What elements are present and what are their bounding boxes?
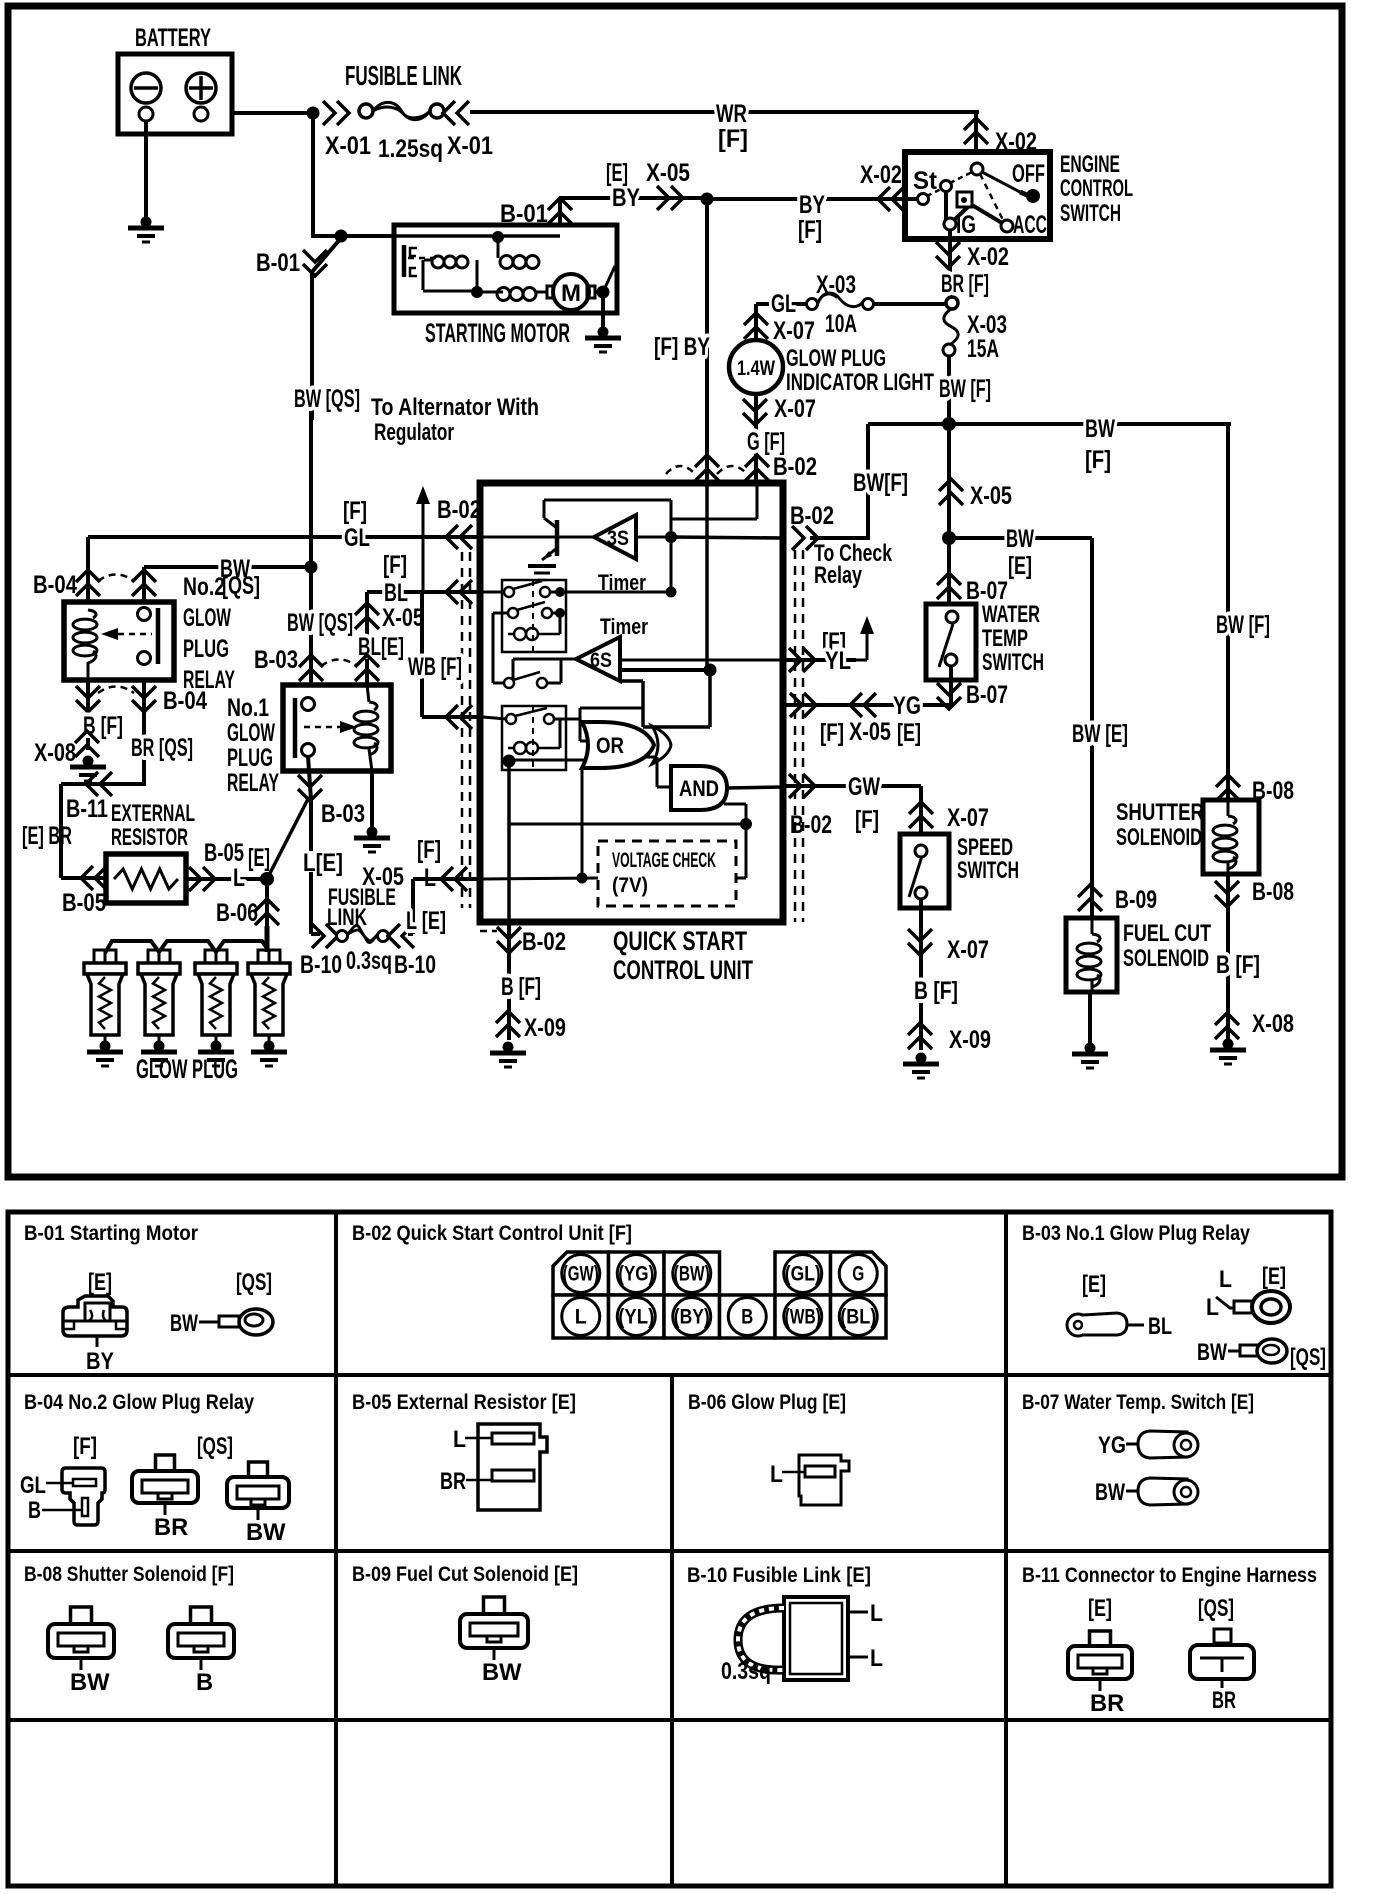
svg-text:[E]: [E] — [1088, 1596, 1112, 1622]
wire AND branch to voltage check — [724, 803, 746, 806]
connector B-03 chevrons above No.1 relay — [299, 655, 323, 681]
switch feed contact (BY) — [918, 194, 929, 205]
svg-text:GLOW: GLOW — [183, 604, 231, 632]
svg-text:BY: BY — [799, 191, 825, 219]
svg-text:TEMP: TEMP — [982, 626, 1028, 652]
connector X-02 chevron below switch — [936, 242, 960, 268]
connector B-08 plug BW — [71, 1607, 92, 1624]
svg-text:[E]: [E] — [1082, 1272, 1106, 1298]
svg-text:X-01: X-01 — [325, 132, 371, 160]
connector B-02 chevrons at top of control unit — [695, 455, 719, 481]
wire battery junction down to starting-motor feed — [311, 113, 315, 238]
svg-text:[E] BR: [E] BR — [22, 822, 72, 850]
svg-text:OFF: OFF — [1012, 160, 1045, 188]
relay contacts row2 — [508, 608, 518, 618]
svg-text:BW [QS]: BW [QS] — [287, 609, 353, 637]
svg-text:X-03: X-03 — [816, 271, 856, 299]
node BY termination — [704, 664, 717, 677]
wire L into control unit — [414, 877, 483, 881]
connector B-02 chevron below unit — [497, 927, 521, 953]
svg-text:ENGINE: ENGINE — [1060, 152, 1120, 178]
connector X-02 chevron on BY wire — [878, 187, 904, 211]
water temp switch box — [926, 604, 976, 680]
wire B-02 exit at bottom of unit — [507, 922, 511, 1040]
svg-text:X-05: X-05 — [382, 604, 424, 632]
svg-text:[E]: [E] — [88, 1270, 112, 1296]
svg-text:[E]: [E] — [897, 719, 921, 747]
ground (battery) — [141, 217, 152, 228]
connector B-08 chevron below — [1215, 881, 1239, 907]
wire row3 to 6S apex — [513, 658, 576, 661]
svg-text:B [F]: B [F] — [83, 712, 123, 740]
svg-text:[F]: [F] — [417, 836, 441, 864]
connector X-07 chevron above speed switch — [909, 802, 933, 828]
starting motor internal top wire — [396, 234, 560, 238]
svg-text:BW [E]: BW [E] — [1072, 720, 1128, 748]
connector X-09 chevron (unit ground) — [496, 1011, 520, 1037]
svg-text:GLOW: GLOW — [227, 719, 275, 747]
switch blade St-hub — [927, 188, 943, 196]
connector B-10 fusible link body — [784, 1597, 848, 1680]
connector B-05 chevron left — [81, 866, 107, 890]
svg-text:[QS]: [QS] — [1198, 1596, 1234, 1622]
ground (control unit) — [503, 1042, 514, 1053]
svg-text:CONTROL UNIT: CONTROL UNIT — [613, 955, 753, 985]
svg-text:10A: 10A — [825, 310, 857, 338]
connector B-07 chevron below switch — [937, 683, 961, 709]
switch OFF contact — [982, 172, 1020, 192]
svg-text:(BW): (BW) — [674, 1263, 710, 1286]
starting motor armature coil — [477, 291, 503, 294]
wire BL into control unit — [367, 590, 483, 594]
No.2 relay coil — [88, 610, 96, 618]
wire to engine control switch (top run WR) — [470, 110, 979, 114]
svg-text:B-06 Glow Plug [E]: B-06 Glow Plug [E] — [688, 1391, 846, 1414]
battery B+ terminal wire — [205, 111, 316, 115]
svg-text:BW: BW — [1095, 1480, 1125, 1506]
connector X-02 chevron above switch — [964, 118, 988, 144]
svg-text:B-02: B-02 — [437, 496, 481, 524]
ground (shutter solenoid) — [1223, 1039, 1234, 1050]
svg-text:BY: BY — [86, 1349, 114, 1375]
svg-text:L: L — [575, 1306, 587, 1329]
relay coil (lower) — [514, 742, 526, 754]
svg-text:GL: GL — [771, 290, 796, 318]
frame: outer border of wiring diagram — [8, 6, 1342, 1177]
svg-text:X-07: X-07 — [947, 936, 989, 964]
svg-text:(WB): (WB) — [785, 1306, 821, 1329]
svg-text:B-06: B-06 — [216, 899, 258, 927]
table vertical divider col3 — [1004, 1212, 1008, 1886]
svg-text:[QS]: [QS] — [222, 572, 260, 600]
svg-text:X-01: X-01 — [447, 132, 493, 160]
svg-text:PLUG: PLUG — [183, 635, 229, 663]
connector B-01 chevron — [548, 198, 572, 224]
svg-text:AND: AND — [679, 776, 719, 801]
svg-text:EXTERNAL: EXTERNAL — [111, 801, 195, 827]
svg-text:G: G — [852, 1263, 864, 1286]
wire OR to AND — [645, 756, 657, 759]
No.1 relay arrow (dashed) — [304, 726, 340, 729]
svg-text:SWITCH: SWITCH — [1060, 201, 1121, 227]
connector B-10 rope loop — [738, 1608, 784, 1670]
connector X-05 chevron on BL[E] — [355, 603, 379, 629]
connector B-09 plug BW — [484, 1597, 505, 1614]
wire row4 to OR gate — [554, 718, 580, 721]
svg-text:Timer: Timer — [600, 614, 648, 639]
No.1 glow plug relay box — [283, 685, 391, 771]
svg-text:B-03 No.1 Glow Plug Relay: B-03 No.1 Glow Plug Relay — [1022, 1222, 1250, 1245]
connector B-08 chevron above — [1216, 775, 1240, 801]
wire 6S second output — [620, 668, 710, 672]
connector X-07 chevron below lamp — [743, 399, 767, 425]
svg-text:BW [F]: BW [F] — [939, 375, 991, 403]
svg-text:B-04 No.2 Glow Plug Relay: B-04 No.2 Glow Plug Relay — [24, 1391, 254, 1414]
svg-text:X-02: X-02 — [967, 243, 1009, 271]
svg-text:L [E]: L [E] — [406, 907, 446, 935]
svg-text:B-11 Connector to Engine H: B-11 Connector to Engine Harness — [1022, 1564, 1317, 1587]
svg-text:BW: BW — [1197, 1340, 1227, 1366]
wire 3S row (GL internal) — [483, 536, 594, 539]
svg-text:6S: 6S — [590, 649, 612, 672]
wire AND output to GW — [727, 787, 783, 788]
wire below speed switch — [919, 899, 923, 1050]
connector B-02 pin grid — [553, 1252, 609, 1295]
svg-text:B-04: B-04 — [33, 571, 77, 599]
svg-text:X-05: X-05 — [970, 482, 1012, 510]
svg-text:QUICK START: QUICK START — [613, 926, 747, 956]
wire down into engine control switch — [974, 112, 978, 152]
svg-text:[QS]: [QS] — [1290, 1345, 1326, 1371]
wire 6S feedback elbow — [708, 670, 712, 727]
wire junction to OR gate lower input — [509, 759, 587, 762]
svg-text:BR: BR — [440, 1469, 466, 1495]
svg-text:BW: BW — [1006, 525, 1034, 553]
connector B-06 plug — [799, 1455, 849, 1505]
svg-text:RESISTOR: RESISTOR — [111, 825, 188, 851]
water temp switch contacts and blade — [946, 611, 958, 623]
connector B-05 resistor housing — [478, 1424, 547, 1510]
svg-text:YG: YG — [893, 692, 921, 720]
svg-text:WB [F]: WB [F] — [408, 653, 462, 681]
starting motor internal joints — [422, 260, 425, 290]
svg-text:[F]: [F] — [718, 125, 748, 153]
table vertical divider col2 (rows 2-4) — [670, 1375, 674, 1886]
wire BW[QS] down to No.1 glow plug relay — [309, 567, 313, 700]
wire L down to glow plugs — [265, 879, 269, 950]
shutter solenoid coil — [1227, 800, 1230, 816]
svg-text:BW [F]: BW [F] — [1216, 611, 1270, 639]
timer 6S triangle — [576, 637, 620, 681]
ground (starting motor) — [598, 327, 609, 338]
svg-text:B-09 Fuel Cut Solenoid [E]: B-09 Fuel Cut Solenoid [E] — [352, 1563, 578, 1586]
svg-text:FUSIBLE LINK: FUSIBLE LINK — [345, 60, 462, 91]
wire BY inside control unit — [705, 483, 709, 670]
svg-text:[E]: [E] — [1262, 1264, 1286, 1290]
svg-text:L: L — [870, 1601, 883, 1627]
starting motor solenoid plunger — [402, 245, 407, 277]
svg-text:SOLENOID: SOLENOID — [1123, 946, 1209, 972]
svg-text:[F]: [F] — [798, 216, 822, 244]
svg-text:[F]: [F] — [855, 806, 879, 834]
svg-text:BW: BW — [1085, 415, 1115, 443]
wire BW[F] across top right — [868, 422, 1231, 426]
connector B-02 chevron (to check relay) — [792, 526, 818, 550]
wire BL[E] down to No.1 relay coil — [365, 592, 369, 700]
svg-text:BR: BR — [154, 1515, 188, 1541]
node voltage check branch — [740, 818, 752, 830]
ground (No.2 relay B wire) — [83, 756, 94, 767]
svg-text:B-07: B-07 — [966, 577, 1008, 605]
svg-text:[F] BY: [F] BY — [654, 333, 710, 361]
svg-text:BY: BY — [612, 184, 640, 212]
connector B-09 chevron — [1078, 885, 1102, 911]
svg-text:L: L — [870, 1646, 883, 1672]
fuel cut solenoid box — [1066, 918, 1117, 992]
svg-text:B-03: B-03 — [254, 646, 298, 674]
switch IG contact — [944, 218, 956, 230]
voltage check dashed box — [598, 841, 736, 906]
ground (glow plug 1) — [100, 1041, 111, 1052]
glow plug 4 — [258, 950, 269, 963]
svg-text:LINK: LINK — [327, 905, 367, 931]
arrow up from GL (continues) — [422, 494, 425, 592]
junction node L (glow plug feed) — [260, 872, 274, 886]
svg-text:BW [QS]: BW [QS] — [294, 385, 360, 413]
connector X-09 chevron — [908, 1023, 932, 1049]
node 3S output — [665, 531, 677, 543]
ground (fuel cut solenoid) — [1085, 1043, 1096, 1054]
svg-text:[QS]: [QS] — [197, 1434, 233, 1460]
table horizontal divider row3/row4 — [8, 1718, 1331, 1722]
svg-text:[E]: [E] — [606, 159, 628, 187]
starting motor hold coil — [500, 256, 513, 269]
dashed harness boundary left of control unit — [461, 552, 464, 908]
wire BW[F] down right side to shutter solenoid — [1226, 424, 1230, 800]
switch hub contact — [971, 163, 983, 175]
wire lamp down to B-02 (G wire) — [754, 394, 758, 483]
fuel cut solenoid coil — [1091, 918, 1094, 934]
svg-text:PLUG: PLUG — [227, 744, 273, 772]
svg-text:[E]: [E] — [1008, 552, 1032, 580]
junction node BW[E] — [942, 531, 956, 545]
glow plug 2 — [148, 950, 159, 963]
svg-text:(YG): (YG) — [618, 1263, 654, 1286]
svg-text:St: St — [913, 167, 938, 195]
svg-text:X-09: X-09 — [524, 1014, 566, 1042]
wire BW main vertical to water temp switch — [947, 424, 951, 606]
svg-text:VOLTAGE CHECK: VOLTAGE CHECK — [612, 849, 716, 872]
connector X-05 chevron on L wire — [441, 867, 467, 891]
connector B-07 chevron above switch — [937, 573, 961, 599]
svg-text:X-08: X-08 — [34, 739, 76, 767]
battery minus symbol — [131, 73, 161, 103]
svg-text:GW: GW — [848, 773, 880, 801]
connector B-11 [QS] plug BR — [1214, 1629, 1231, 1643]
svg-text:INDICATOR LIGHT: INDICATOR LIGHT — [786, 370, 934, 396]
svg-text:SHUTTER: SHUTTER — [1116, 800, 1204, 826]
connector B-02 chevron on BL — [446, 580, 472, 604]
battery terminal posts — [139, 107, 153, 121]
timer 3S triangle — [594, 515, 636, 559]
svg-text:B [F]: B [F] — [914, 977, 958, 1005]
wire from fusible link up to L[F] — [408, 932, 413, 936]
wire B-01 branch diagonal down — [312, 238, 341, 420]
svg-text:X-07: X-07 — [773, 317, 815, 345]
svg-text:[QS]: [QS] — [236, 1270, 272, 1296]
relay contacts row3 — [504, 678, 514, 688]
svg-text:X-05: X-05 — [849, 718, 891, 746]
svg-text:GL: GL — [20, 1473, 46, 1499]
svg-text:B-04: B-04 — [163, 687, 207, 715]
svg-text:L: L — [770, 1462, 783, 1488]
svg-text:0.3sq: 0.3sq — [721, 1659, 771, 1685]
svg-text:(YL): (YL) — [618, 1306, 654, 1329]
wire WB into control unit — [420, 592, 424, 717]
No.2 relay arrow (dashed) — [118, 633, 152, 636]
switch St contact — [941, 181, 952, 192]
svg-text:OR: OR — [596, 733, 624, 758]
svg-text:B-02: B-02 — [790, 811, 832, 839]
starting motor ground wire — [601, 292, 605, 330]
svg-text:BR [F]: BR [F] — [941, 270, 989, 298]
starting motor pull-in coil — [432, 256, 444, 268]
svg-text:L: L — [1219, 1267, 1232, 1293]
wire node down to timer row — [670, 537, 673, 592]
ground (speed switch) — [916, 1053, 927, 1064]
wire BW[F] from 15A fuse down — [947, 356, 951, 424]
table horizontal divider row2/row3 — [8, 1549, 1331, 1553]
wire fuel cut solenoid to ground — [1088, 992, 1092, 1045]
svg-text:To Alternator With: To Alternator With — [371, 395, 539, 421]
svg-text:BR [QS]: BR [QS] — [131, 734, 193, 762]
ground (glow plug 3) — [211, 1041, 222, 1052]
svg-text:No.1: No.1 — [227, 694, 269, 722]
svg-text:G [F]: G [F] — [747, 428, 785, 456]
svg-text:X-07: X-07 — [774, 395, 816, 423]
wire BW down to No.2 relay contact — [142, 567, 146, 610]
svg-text:WATER: WATER — [982, 602, 1040, 628]
connector B-02 chevron on WB — [446, 705, 472, 729]
connector B-04 [QS] plug BW — [249, 1462, 268, 1477]
svg-text:GLOW PLUG: GLOW PLUG — [786, 346, 886, 372]
junction node BW distribution — [942, 417, 956, 431]
wire [F]BY down to quick start control unit — [705, 199, 709, 483]
No.2 glow plug relay box — [64, 602, 174, 680]
svg-text:B [F]: B [F] — [501, 973, 541, 1001]
connector X-01 right chevron — [443, 101, 469, 125]
No.1 relay contacts — [302, 698, 315, 711]
glow plug 3 — [205, 950, 216, 963]
wire to check relay (up from control unit) — [866, 424, 870, 540]
svg-text:X-02: X-02 — [860, 161, 902, 189]
svg-text:[F]: [F] — [343, 497, 367, 525]
svg-text:B-07 Water Temp. Switch [E]: B-07 Water Temp. Switch [E] — [1022, 1391, 1254, 1414]
connector B-01 chevron near battery — [303, 250, 327, 276]
svg-text:[F]: [F] — [383, 551, 407, 579]
svg-text:B-10: B-10 — [300, 951, 342, 979]
wire down into speed switch — [919, 786, 923, 836]
svg-text:RELAY: RELAY — [227, 769, 279, 797]
transistor Q1 — [555, 520, 560, 556]
No.2 relay contacts — [138, 608, 151, 621]
battery box — [118, 54, 232, 134]
svg-text:IG: IG — [956, 211, 976, 239]
wire YG from control unit to water temp switch — [786, 703, 951, 707]
svg-text:B: B — [196, 1670, 213, 1696]
svg-text:[E]: [E] — [248, 844, 270, 872]
svg-text:B-02 Quick Start Control U: B-02 Quick Start Control Unit [F] — [352, 1222, 632, 1245]
speed switch contacts and blade — [915, 845, 927, 857]
connector B-04 [QS] plug BR — [156, 1455, 175, 1471]
connector X-08 chevron — [75, 731, 99, 757]
fusible link 1.25sq wavy element — [359, 104, 373, 118]
wire to check relay (internal) — [671, 537, 783, 538]
wire 6S output to YL — [620, 659, 783, 662]
relay coil (upper) — [514, 628, 526, 640]
wire collector loop — [544, 499, 671, 502]
external resistor element — [114, 869, 178, 889]
svg-text:B-03: B-03 — [321, 800, 365, 828]
junction node starting motor feed — [335, 230, 348, 243]
wire diagonal from No.1 relay — [267, 797, 309, 879]
connector B-04 chevrons below No.2 relay — [76, 686, 100, 712]
labels L L 0.3sq (B-10) — [848, 1611, 868, 1614]
connector B-05 chevron right — [189, 867, 215, 891]
svg-text:1.4W: 1.4W — [737, 357, 775, 380]
connector B-11 [E] plug BR — [1090, 1631, 1111, 1646]
relay contacts row4 — [506, 714, 516, 724]
glow plug 1 — [94, 950, 105, 963]
AND gate — [671, 766, 727, 810]
wire BW[E] over to fuel cut solenoid — [949, 536, 1092, 540]
svg-text:1.25sq: 1.25sq — [378, 135, 443, 163]
svg-text:(BL): (BL) — [840, 1306, 876, 1329]
switch bars hub to IG and ACC — [944, 191, 948, 220]
svg-text:(GW): (GW) — [563, 1263, 599, 1286]
svg-text:BL: BL — [1148, 1314, 1172, 1340]
wire GL fuse run — [756, 302, 807, 306]
wire 3S output to node — [636, 536, 671, 539]
wire GL down to No.2 relay coil — [86, 537, 90, 616]
No.1 relay coil ground wire — [369, 749, 372, 771]
svg-text:BL: BL — [384, 579, 408, 607]
connector X-01 left chevron — [323, 101, 349, 125]
svg-text:B-08: B-08 — [1252, 878, 1294, 906]
connector B-02 chevron on YG — [790, 693, 816, 717]
wire G internal feed — [756, 483, 759, 519]
svg-text:B-05: B-05 — [62, 889, 106, 917]
junction node BW at alternator wire — [305, 561, 318, 574]
relay sub-box (upper relay) — [502, 580, 566, 652]
svg-text:B-05: B-05 — [204, 839, 244, 867]
svg-text:BW: BW — [246, 1520, 286, 1546]
switch ACC contact — [1001, 220, 1013, 232]
engine control switch box — [905, 152, 1050, 239]
svg-text:[F]: [F] — [820, 719, 844, 747]
svg-text:L: L — [453, 1427, 466, 1453]
svg-text:M: M — [561, 281, 581, 307]
svg-text:SWITCH: SWITCH — [957, 858, 1019, 884]
svg-text:B-02: B-02 — [522, 928, 566, 956]
connector X-08 chevron — [1215, 1013, 1239, 1039]
wire BY[F] to engine control switch — [707, 197, 917, 201]
svg-text:BR: BR — [1212, 1688, 1236, 1714]
connector B-03 chevron below No.1 relay — [298, 775, 322, 801]
svg-text:SOLENOID: SOLENOID — [1116, 825, 1202, 851]
svg-text:Relay: Relay — [814, 563, 863, 589]
svg-text:BW: BW — [170, 1311, 198, 1337]
